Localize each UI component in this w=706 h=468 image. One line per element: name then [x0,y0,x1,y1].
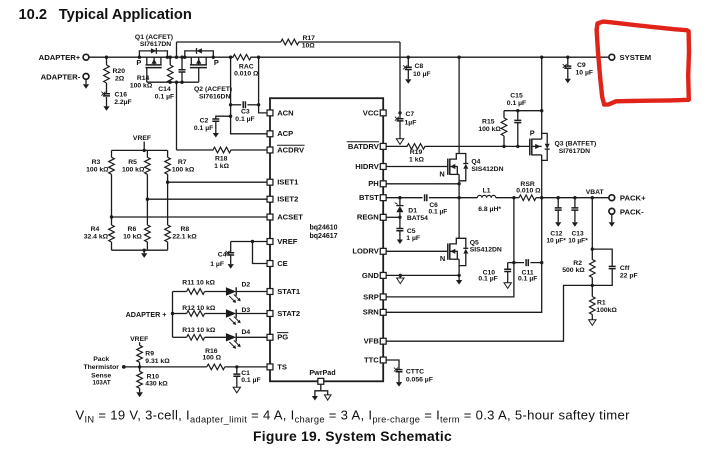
svg-text:PG: PG [277,333,288,342]
transistor Q4 SIS412DN [439,56,503,198]
svg-text:R5: R5 [128,159,137,166]
wire: Q5 source to ground [458,259,460,280]
resistor R12 [173,313,187,315]
svg-text:R15: R15 [482,119,495,126]
svg-text:1 kΩ: 1 kΩ [214,163,229,170]
svg-text:STAT2: STAT2 [277,309,300,318]
wire: SRN sense [386,198,542,313]
wire: Q4 drain to system rail [458,57,460,153]
ground under C1 [236,385,238,388]
svg-text:VIN = 19 V, 3-cell, Iadapter_l: VIN = 19 V, 3-cell, Iadapter_limit = 4 A… [76,408,631,425]
svg-text:R7: R7 [178,159,187,166]
pin BATDRV [380,143,386,149]
ground under R10 [136,392,143,397]
wire: REGN [386,216,400,218]
svg-text:R20: R20 [113,68,126,75]
wire: Q3 drain to VBAT [541,155,543,198]
svg-text:100kΩ: 100kΩ [596,307,617,314]
svg-text:VBAT: VBAT [586,189,605,196]
resistor R19 [386,145,407,147]
svg-text:REGN: REGN [357,213,379,222]
wire: R17 to VCC [399,42,401,113]
svg-text:9.31 kΩ: 9.31 kΩ [145,358,170,365]
wire: VBAT rail [542,197,609,199]
pin BTST [380,195,386,201]
wire: ACP sense [231,57,268,134]
capacitor C7 [398,111,401,114]
LED D3 [226,309,236,317]
svg-text:D3: D3 [241,307,250,314]
svg-text:CTTC: CTTC [406,368,424,375]
svg-text:Q5: Q5 [470,239,479,246]
svg-text:R11 10 kΩ: R11 10 kΩ [182,280,215,287]
resistor R15 [503,111,505,118]
pin REGN [380,214,386,220]
pin SRN [380,309,386,315]
svg-text:C14: C14 [158,86,171,93]
capacitor Cff [592,249,612,266]
terminal PACK+ [609,195,615,201]
pin VCC [380,110,386,116]
wire: VREF pin to C4 [231,241,268,243]
svg-text:C2: C2 [200,118,209,125]
pin VREF [267,239,273,245]
inductor L1 [459,197,477,199]
resistor R20 [106,57,108,65]
transistor Q5 SIS412DN [440,198,502,285]
resistor R2 [591,196,594,199]
resistor R9 [137,345,143,362]
wire: common drain node up to R17 [176,42,178,57]
svg-text:VREF: VREF [133,135,151,142]
svg-text:C7: C7 [406,111,415,118]
svg-text:R13 10 kΩ: R13 10 kΩ [182,327,216,334]
svg-text:BAT54: BAT54 [407,215,428,222]
node Pack Thermistor Sense [122,365,126,369]
svg-text:R10: R10 [147,373,160,380]
svg-text:Cff: Cff [620,265,630,272]
wire: ACN sense [259,57,268,113]
svg-text:N: N [440,254,445,263]
svg-text:100 kΩ: 100 kΩ [86,166,109,173]
svg-text:ACN: ACN [277,108,293,117]
capacitor C6 [425,194,427,201]
svg-text:bq24617: bq24617 [310,233,338,240]
svg-text:0.1 µF: 0.1 µF [155,94,174,101]
svg-text:C4: C4 [218,252,227,259]
capacitor C8 [407,56,410,59]
svg-text:1µF: 1µF [405,119,417,126]
svg-text:SRN: SRN [363,308,379,317]
svg-text:22.1 kΩ: 22.1 kΩ [172,234,197,241]
pin STAT1 [267,289,273,295]
svg-text:CE: CE [277,259,288,268]
svg-text:R12 10 kΩ: R12 10 kΩ [182,305,216,312]
capacitor C10 [507,263,509,270]
pin VFB [380,338,386,344]
resistor R10 [139,367,141,371]
svg-text:SIS412DN: SIS412DN [471,166,503,173]
svg-text:D4: D4 [241,329,250,336]
ground under C16 [106,103,108,106]
svg-text:100 kΩ: 100 kΩ [122,166,145,173]
svg-text:C9: C9 [577,62,586,69]
capacitor CTTC [396,370,403,372]
svg-text:0.1 µF: 0.1 µF [235,116,254,123]
svg-text:0.1 µF: 0.1 µF [428,209,447,216]
ground under R1 [591,317,593,320]
svg-text:ACSET: ACSET [277,212,303,221]
ground at GND pin [399,275,401,278]
svg-text:PACK-: PACK- [620,207,644,216]
pin LODRV [380,248,386,254]
diode D1 BAT54 [399,198,401,206]
svg-text:BATDRV: BATDRV [348,142,380,151]
ground under CTTC [398,379,400,382]
svg-text:0.1 µF: 0.1 µF [518,276,537,283]
wire: adapter+ rail [89,56,234,58]
svg-text:Figure 19. System Schematic: Figure 19. System Schematic [253,428,452,444]
svg-text:0.1 µF: 0.1 µF [507,100,526,107]
pin ISET1 [267,179,273,185]
svg-text:1 kΩ: 1 kΩ [409,157,424,164]
svg-text:100 kΩ: 100 kΩ [172,166,195,173]
svg-text:R6: R6 [128,226,137,233]
svg-text:100 kΩ: 100 kΩ [478,126,501,133]
resistor R1 [591,285,593,296]
svg-text:10.2: 10.2 [19,7,48,23]
ground under ADAPTER- [85,79,87,84]
wire: gate bus down to R18/ACDRV [176,82,178,150]
svg-text:R1: R1 [597,299,606,306]
wire: HIDRV to Q4 gate [386,166,448,168]
svg-text:R9: R9 [145,351,154,358]
wire: VFB feedback [386,285,592,341]
capacitor C2 [216,116,231,119]
ground under C4 [228,264,234,269]
svg-text:ADAPTER+: ADAPTER+ [39,53,81,62]
ground under C10 [507,280,509,283]
svg-text:D2: D2 [241,282,250,289]
ground under PACK- [611,214,613,222]
svg-text:C16: C16 [115,92,128,99]
svg-text:R8: R8 [180,226,189,233]
svg-text:ADAPTER +: ADAPTER + [126,310,167,319]
pin TS [267,364,273,370]
resistor R18 [177,149,214,151]
svg-text:430 kΩ: 430 kΩ [145,381,168,388]
pin ISET2 [267,196,273,202]
pin ACDRV [267,147,273,153]
svg-text:Q4: Q4 [471,159,480,166]
svg-text:ADAPTER-: ADAPTER- [41,72,81,81]
svg-text:VCC: VCC [363,108,380,117]
terminal ADAPTER+ [83,54,89,60]
svg-text:0.1 µF: 0.1 µF [194,125,213,132]
svg-text:STAT1: STAT1 [277,287,301,296]
wire: LODRV to Q5 gate [386,250,448,252]
LED D4 [226,333,236,341]
body diode of Q4 [459,154,466,164]
svg-text:R19: R19 [410,149,423,156]
wire: SRP sense [386,198,514,297]
svg-text:103AT: 103AT [93,380,111,387]
wire: ISET2 [147,198,267,200]
wire: gate bus of Q1/Q2 [147,81,199,83]
resistor R5 [146,150,148,157]
ground under C2 [215,130,217,133]
wire: TTC [386,360,399,370]
transistor Q3 (BATFET) SI7617DN [530,56,597,198]
pin PH [380,181,386,187]
svg-text:C3: C3 [241,109,250,116]
svg-text:C8: C8 [415,63,424,70]
svg-text:10 µF*: 10 µF* [568,238,588,245]
ground under C7 [399,136,401,139]
wire: PH to switch node [386,183,459,185]
svg-text:C15: C15 [510,93,523,100]
svg-text:10 µF*: 10 µF* [546,238,566,245]
terminal PACK- [609,208,615,214]
svg-text:Q3 (BATFET): Q3 (BATFET) [555,141,597,148]
wire: R15/C15 top to Q3 source [504,110,542,112]
pin SRP [380,294,386,300]
svg-text:R4: R4 [91,226,100,233]
ground under PwrPad [320,384,322,391]
svg-text:Sense: Sense [91,372,111,379]
svg-text:1 µF: 1 µF [406,235,420,242]
svg-text:VREF: VREF [130,336,148,343]
svg-text:R3: R3 [92,159,101,166]
svg-text:ISET2: ISET2 [277,195,298,204]
resistor R4 [111,217,113,225]
svg-text:Q2 (ACFET): Q2 (ACFET) [194,86,232,93]
ground under C5 [399,236,401,239]
capacitor C13 [573,196,576,199]
wire: system rail after RAC [251,56,609,58]
svg-text:GND: GND [362,271,379,280]
svg-text:2Ω: 2Ω [115,76,125,83]
resistor RSR [514,197,519,199]
svg-text:6.8 µH*: 6.8 µH* [478,206,501,213]
wire: Q3 source to system rail [541,57,543,139]
svg-text:P: P [530,128,535,137]
wire: Q5 drain to switch node [458,198,460,239]
svg-text:R18: R18 [215,155,228,162]
pin CE [267,261,273,267]
svg-text:SI7617DN: SI7617DN [140,41,171,48]
svg-text:0.056 µF: 0.056 µF [406,376,433,383]
svg-text:22 pF: 22 pF [620,273,638,280]
resistor R7 [167,150,169,157]
capacitor C9 [566,56,569,59]
svg-text:10 µF: 10 µF [576,69,594,76]
svg-text:500 kΩ: 500 kΩ [562,267,585,274]
wire: ISET1 [168,181,268,183]
svg-text:Thermistor: Thermistor [83,364,119,371]
svg-text:PH: PH [368,179,379,188]
wire: VREF to CE [253,242,268,264]
pin PG [267,334,273,340]
pin TTC [380,357,386,363]
body diode of Q3 [542,133,548,143]
svg-text:Pack: Pack [93,356,109,363]
pin HIDRV [380,164,386,170]
pin STAT2 [267,311,273,317]
svg-text:0.010 Ω: 0.010 Ω [516,188,541,195]
pin ACP [267,131,273,137]
svg-text:BTST: BTST [359,193,379,202]
svg-text:ACP: ACP [277,129,293,138]
svg-text:TS: TS [277,362,287,371]
resistor R17 [177,41,282,43]
resistor R6 [146,199,148,225]
svg-text:ACDRV: ACDRV [277,145,305,154]
wire: adapter+ bus for LEDs [172,292,174,338]
svg-text:10Ω: 10Ω [302,42,316,49]
terminal SYSTEM [609,54,615,60]
svg-text:VREF: VREF [277,237,298,246]
svg-text:1 µF: 1 µF [210,261,224,268]
wire: TS [124,366,207,368]
svg-text:TTC: TTC [364,355,379,364]
resistor RAC [233,54,251,60]
svg-text:N: N [439,169,444,178]
svg-text:SI7617DN: SI7617DN [559,148,590,155]
svg-text:C12: C12 [550,230,562,237]
svg-text:32.4 kΩ: 32.4 kΩ [84,234,109,241]
red marker annotation around SYSTEM [597,22,689,105]
resistor R3 [111,150,113,157]
svg-text:C5: C5 [407,228,416,235]
svg-text:100 kΩ: 100 kΩ [130,82,153,89]
svg-text:bq24610: bq24610 [310,225,338,232]
svg-text:PACK+: PACK+ [620,194,646,203]
capacitor C11 [508,262,524,264]
svg-text:P: P [214,58,219,67]
body diode of Q5 [459,238,466,248]
resistor R16 [207,364,225,370]
svg-text:C13: C13 [572,230,584,237]
wire: Q4 source down to PH node [458,174,460,197]
svg-text:R17: R17 [302,35,315,42]
capacitor C4 [230,242,232,253]
capacitor C14 [181,57,183,69]
svg-text:VFB: VFB [364,337,380,346]
svg-text:R14: R14 [137,75,150,82]
capacitor C3 [231,104,242,106]
svg-text:LODRV: LODRV [352,247,379,256]
svg-text:100 Ω: 100 Ω [202,355,221,362]
svg-text:SYSTEM: SYSTEM [620,53,652,62]
capacitor C5 [399,217,401,228]
wire: vref bus top [112,149,168,151]
svg-text:10 µF: 10 µF [413,71,431,78]
resistor R14 [169,57,171,65]
capacitor C15 [517,111,519,121]
wire: divider bottom bus [112,249,168,251]
wire: ACSET [112,216,268,218]
svg-text:D1: D1 [408,208,417,215]
svg-text:PwrPad: PwrPad [309,368,335,377]
svg-text:HIDRV: HIDRV [355,162,379,171]
svg-text:P: P [136,58,141,67]
LED D2 [226,287,236,295]
svg-text:2.2µF: 2.2µF [114,99,132,106]
terminal ADAPTER- [83,74,89,80]
capacitor C12 [557,196,560,199]
capacitor C16 [103,94,110,96]
svg-text:0.1 µF: 0.1 µF [478,276,497,283]
wire: GND pin [386,274,459,276]
wire: BTST [386,197,422,199]
svg-text:ISET1: ISET1 [277,178,299,187]
op IC U1 bq24610/bq24617 body [270,98,383,381]
svg-text:SRP: SRP [363,292,379,301]
resistor R11 [173,291,187,293]
transistor Q2 (ACFET) SI7616DN [183,48,232,101]
svg-text:SIS412DN: SIS412DN [470,247,502,254]
transistor Q1 (ACFET) SI7617DN [135,34,173,82]
svg-text:SI7616DN: SI7616DN [199,94,230,101]
svg-text:0.1 µF: 0.1 µF [241,377,260,384]
resistor R13 [173,336,187,338]
svg-text:L1: L1 [483,188,491,195]
capacitor C1 [235,365,238,368]
pin ACN [267,110,273,116]
svg-text:R2: R2 [573,260,582,267]
svg-text:0.010 Ω: 0.010 Ω [234,71,259,78]
svg-text:Typical Application: Typical Application [59,7,192,23]
svg-text:10 kΩ: 10 kΩ [123,234,142,241]
ground under divider [143,250,145,253]
pin PwrPad [318,378,324,384]
pin ACSET [267,214,273,220]
svg-text:C1: C1 [241,370,250,377]
resistor R8 [167,182,169,225]
svg-text:RAC: RAC [239,64,254,71]
pin GND [380,272,386,278]
